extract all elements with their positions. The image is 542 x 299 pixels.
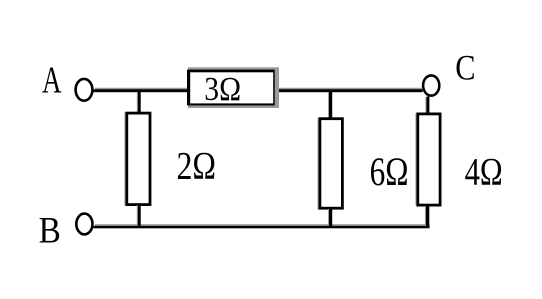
svg-text:3Ω: 3Ω — [204, 70, 241, 107]
wire: bottom rail from B to 4-ohm branch — [94, 226, 430, 229]
svg-text:C: C — [455, 48, 475, 88]
resistor R3 6-ohm body — [320, 119, 343, 209]
terminal B — [76, 214, 92, 235]
wire: 2-ohm branch bottom stub — [138, 204, 141, 226]
wire: stub from terminal C down to 4-ohm (ghost) — [425, 98, 426, 114]
resistor R4 4-ohm left ghost — [415, 113, 416, 206]
svg-text:B: B — [39, 210, 61, 251]
wire: bottom rail from B to 4-ohm branch (ghost) — [95, 224, 430, 226]
resistor R2 2-ohm left ghost — [124, 113, 125, 206]
svg-text:6Ω: 6Ω — [370, 149, 409, 194]
wire: top rail from A to R1 (ghost) — [95, 88, 189, 89]
resistor R1 3-ohm body — [187, 70, 275, 106]
terminal A — [76, 79, 93, 101]
wire: 2-ohm branch bottom stub (ghost) — [137, 205, 138, 225]
svg-text:2Ω: 2Ω — [177, 143, 216, 187]
wire: top rail from R1 to C (ghost) — [274, 88, 423, 89]
wire: 2-ohm branch top stub (ghost) — [137, 92, 138, 113]
resistor R3 6-ohm left ghost — [318, 118, 319, 210]
wire: top rail from R1 to C — [274, 89, 423, 92]
wire: 2-ohm branch top stub — [138, 91, 141, 114]
wire: top rail from A to R1 — [94, 89, 189, 92]
resistor R2 2-ohm body — [127, 113, 150, 205]
wire: 6-ohm branch bottom stub — [329, 208, 332, 226]
resistor R1 3-ohm shadow — [188, 67, 279, 108]
wire: 6-ohm branch bottom stub (ghost) — [328, 209, 329, 225]
wire: 6-ohm branch top stub (ghost) — [328, 92, 329, 118]
wire: 6-ohm branch top stub — [329, 91, 332, 119]
svg-text:A: A — [42, 60, 62, 101]
wire: 4-ohm branch bottom stub (ghost) — [425, 206, 426, 226]
svg-text:4Ω: 4Ω — [465, 150, 503, 193]
wire: stub from terminal C down to 4-ohm — [426, 97, 429, 115]
resistor R4 4-ohm body — [418, 114, 440, 205]
wire: 4-ohm branch bottom stub — [426, 205, 429, 228]
terminal C — [423, 75, 439, 95]
